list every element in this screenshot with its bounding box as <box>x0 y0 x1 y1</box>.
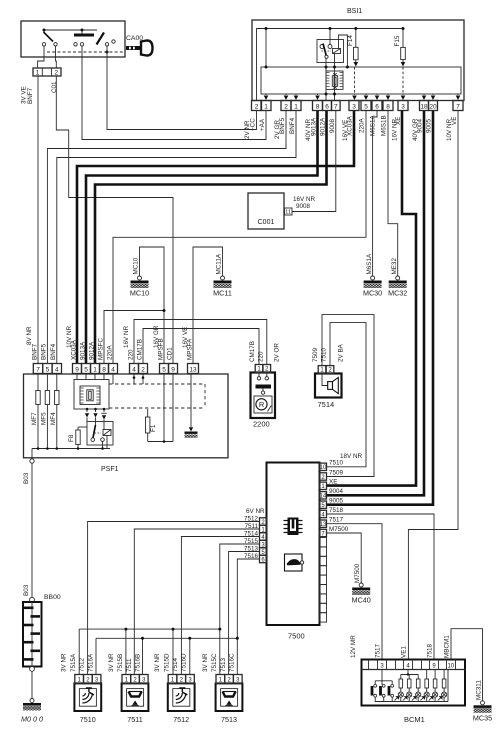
svg-text:3V NR: 3V NR <box>202 653 209 672</box>
svg-text:9008: 9008 <box>329 118 336 133</box>
svg-text:9012A: 9012A <box>89 341 96 360</box>
svg-text:10: 10 <box>320 465 327 471</box>
svg-text:2V OR: 2V OR <box>274 343 281 362</box>
svg-text:M0 0 0: M0 0 0 <box>21 715 43 724</box>
svg-text:4: 4 <box>55 366 59 373</box>
relay switched output to pin 6 <box>325 58 327 100</box>
svg-text:MF7: MF7 <box>31 412 38 425</box>
wire 7516 bus <box>237 559 259 675</box>
svg-text:R: R <box>259 400 264 409</box>
svg-text:7515C: 7515C <box>211 653 218 672</box>
parking sensor 7512 <box>168 683 195 711</box>
svg-text:7516D: 7516D <box>181 653 188 672</box>
svg-text:2: 2 <box>54 70 58 77</box>
PSF1 pin row group 8V NR <box>33 364 42 374</box>
svg-text:7517: 7517 <box>329 517 344 524</box>
svg-text:5: 5 <box>162 366 166 373</box>
svg-text:220A: 220A <box>107 344 114 360</box>
svg-text:MC30: MC30 <box>363 289 382 298</box>
parking sensor 7511 <box>122 683 149 711</box>
svg-text:7513: 7513 <box>220 657 227 672</box>
svg-text:ME32: ME32 <box>391 258 398 275</box>
svg-text:7518: 7518 <box>427 643 434 658</box>
BSI1 pin row <box>252 101 262 111</box>
parking sensor 7513 <box>216 683 243 711</box>
svg-text:MBCM1: MBCM1 <box>443 635 450 658</box>
wire 7515 bus <box>220 544 260 675</box>
wire 7509 from 7500 to 7514 <box>322 315 374 477</box>
wire B03 from PSF1 <box>30 459 34 463</box>
fuses in BCM1 <box>401 674 418 676</box>
svg-text:BNF5: BNF5 <box>279 117 286 134</box>
svg-text:14: 14 <box>320 494 327 500</box>
wire 7518 to BCM1 <box>327 514 435 660</box>
svg-text:VE1: VE1 <box>401 646 408 658</box>
wire +AA <box>82 46 266 140</box>
svg-text:8: 8 <box>316 103 320 110</box>
svg-text:12V MR: 12V MR <box>350 635 357 658</box>
svg-text:4: 4 <box>132 366 136 373</box>
internal band in BSI1 <box>261 67 461 94</box>
svg-text:7515A: 7515A <box>70 653 77 672</box>
BCM1 bottom bus <box>375 701 448 703</box>
svg-text:F8: F8 <box>68 434 75 442</box>
svg-text:9004: 9004 <box>417 118 424 133</box>
svg-text:9013A: 9013A <box>80 341 87 360</box>
internal module rect in PSF1 <box>74 380 109 410</box>
svg-text:MC11: MC11 <box>213 289 232 298</box>
svg-text:11: 11 <box>285 210 291 216</box>
svg-text:7510: 7510 <box>329 460 344 467</box>
svg-text:1: 1 <box>264 103 268 110</box>
svg-text:6V NR: 6V NR <box>246 508 265 515</box>
wire 7513 <box>229 552 260 675</box>
svg-text:BNF4: BNF4 <box>289 117 296 134</box>
internal rail in CA00 <box>44 29 97 31</box>
wire M6S1B / ME32 to ground MC32 <box>388 111 398 276</box>
svg-text:2: 2 <box>141 366 145 373</box>
svg-text:MF4: MF4 <box>50 412 57 425</box>
svg-text:8: 8 <box>386 103 390 110</box>
PSF1 pin row group 10V NR <box>73 364 82 374</box>
svg-text:9004: 9004 <box>329 488 344 495</box>
svg-text:XC03A: XC03A <box>347 115 354 136</box>
IC symbol in 7500 <box>284 520 288 522</box>
svg-text:MC10: MC10 <box>130 289 149 298</box>
svg-text:7509: 7509 <box>329 469 344 476</box>
fuse MF7 <box>37 374 39 449</box>
battery interconnects <box>375 680 392 682</box>
svg-text:M7500: M7500 <box>329 526 349 533</box>
svg-text:13: 13 <box>320 522 327 528</box>
svg-text:7512: 7512 <box>79 657 86 672</box>
svg-text:VE: VE <box>451 117 458 125</box>
svg-text:220A: 220A <box>359 117 366 133</box>
svg-text:+CC: +CC <box>250 118 257 131</box>
relay feed from rail <box>329 29 331 45</box>
BSI1 pin arrows from band <box>265 94 267 95</box>
wire 220 PSF1 to 2200 <box>134 320 267 365</box>
svg-text:7515D: 7515D <box>163 653 170 672</box>
svg-text:B03: B03 <box>23 472 30 484</box>
connector C01 <box>33 68 61 76</box>
connector symbol in PSF1 <box>80 386 100 405</box>
svg-text:F1: F1 <box>150 424 157 432</box>
svg-text:7514: 7514 <box>318 400 335 409</box>
internal supply rail in PSF1 <box>32 448 110 450</box>
svg-text:7511: 7511 <box>127 715 142 724</box>
ground MC35 <box>481 701 485 705</box>
switch contact S1 in CA00 <box>43 30 45 33</box>
svg-text:13: 13 <box>189 366 197 373</box>
svg-text:PSF1: PSF1 <box>101 466 119 473</box>
2200 internals <box>257 377 260 380</box>
wire 9013A thick <box>86 111 318 364</box>
wire 7510 from 7500 to 7514 <box>327 323 367 467</box>
svg-text:5: 5 <box>364 103 368 110</box>
ground MC10 <box>104 311 164 364</box>
svg-text:2: 2 <box>255 103 259 110</box>
batteries in BCM1 <box>371 686 374 696</box>
switch contact S3 in CA00 <box>97 33 105 45</box>
svg-text:BNF7: BNF7 <box>32 343 39 360</box>
2200 pins <box>255 365 263 373</box>
pin 11 of C001 <box>285 208 293 215</box>
wire XC03A thick <box>77 111 354 364</box>
svg-text:5: 5 <box>46 366 50 373</box>
7500 right pins <box>320 463 327 470</box>
svg-text:CM17B: CM17B <box>137 339 144 360</box>
svg-text:BCM1: BCM1 <box>404 715 425 724</box>
svg-text:MF5: MF5 <box>41 412 48 425</box>
fuse MF5 <box>46 374 48 449</box>
svg-text:MC40: MC40 <box>352 596 371 605</box>
svg-text:+AA: +AA <box>259 118 266 131</box>
svg-text:M6S1B: M6S1B <box>381 115 388 136</box>
wire 9008 BSI1 to C001 <box>292 111 336 212</box>
control unit 7500 <box>267 463 320 626</box>
PSF1 pin row group 16V VE <box>188 364 199 374</box>
svg-text:CM17B: CM17B <box>249 341 256 362</box>
svg-text:BNF4: BNF4 <box>50 343 57 360</box>
svg-text:9008: 9008 <box>296 203 311 210</box>
wire SW1b to C01 pin2 <box>55 46 58 68</box>
pin stubs into module <box>76 374 78 380</box>
svg-text:18V NR: 18V NR <box>340 453 363 460</box>
svg-text:7518: 7518 <box>329 507 344 514</box>
key symbol <box>126 46 141 50</box>
svg-text:XE: XE <box>329 479 337 486</box>
battery control module BCM1 <box>362 660 466 706</box>
wire +CC internal riser <box>257 29 404 102</box>
ground M000 <box>31 671 33 698</box>
wire 7517 to BCM1 <box>327 524 383 660</box>
cigar lighter 2200 <box>251 373 276 419</box>
car symbol in 7500 <box>285 554 303 571</box>
junction box C001 <box>248 193 284 229</box>
svg-text:7: 7 <box>456 103 460 110</box>
svg-text:8V NR: 8V NR <box>26 326 33 345</box>
svg-text:1: 1 <box>294 103 298 110</box>
speaker symbol in 7514 <box>322 374 328 386</box>
module outputs with arrows <box>86 409 88 412</box>
svg-text:BSI1: BSI1 <box>347 8 362 15</box>
svg-text:8: 8 <box>102 366 106 373</box>
svg-text:MC10: MC10 <box>133 257 140 274</box>
7514 pins <box>318 366 326 374</box>
svg-text:F15: F15 <box>394 35 401 46</box>
svg-text:9005: 9005 <box>329 498 344 505</box>
svg-text:XC03A: XC03A <box>71 339 78 360</box>
svg-text:MC311: MC311 <box>476 680 483 700</box>
svg-text:16V NR: 16V NR <box>123 325 130 348</box>
svg-text:6: 6 <box>325 103 329 110</box>
dashed feed F15 to pin 3 XE <box>402 67 404 95</box>
svg-text:M7500: M7500 <box>354 563 361 583</box>
svg-text:MC35: MC35 <box>473 713 492 722</box>
svg-text:9: 9 <box>75 366 79 373</box>
7500 left pins <box>260 518 267 525</box>
svg-text:2V BA: 2V BA <box>338 343 345 362</box>
svg-text:7510: 7510 <box>80 715 96 724</box>
wire 220A <box>113 111 366 364</box>
svg-text:3: 3 <box>352 103 356 110</box>
svg-text:9: 9 <box>171 366 175 373</box>
wire M7500 to ground MC40 <box>327 533 362 583</box>
svg-text:C01: C01 <box>51 81 58 93</box>
connector symbol inside band <box>326 71 343 89</box>
wire VE down to BCM1 VE1 <box>408 111 458 660</box>
svg-text:BB00: BB00 <box>44 594 61 601</box>
svg-text:20: 20 <box>429 103 437 110</box>
wire 9005 thick <box>327 111 434 505</box>
svg-text:7513: 7513 <box>221 715 237 724</box>
wire MPSFB riser to MC10 <box>140 247 165 364</box>
svg-text:5: 5 <box>84 366 88 373</box>
svg-text:7512: 7512 <box>173 715 189 724</box>
internal wires to F1 <box>148 441 173 443</box>
svg-text:CD1: CD1 <box>167 347 174 360</box>
svg-text:F14: F14 <box>347 35 354 46</box>
relay in BSI1 <box>317 40 344 63</box>
wire MBCM1 to ground MC35 <box>451 629 483 701</box>
wire XE thick down right side <box>327 111 417 486</box>
relay output wires in PSF1 <box>31 449 33 459</box>
dashed feed F14 to pin 3 XC03A <box>354 67 356 95</box>
svg-text:3V NR: 3V NR <box>108 653 115 672</box>
wire CM17B PSF1 to 2200 <box>143 329 259 365</box>
svg-text:7514: 7514 <box>172 657 179 672</box>
svg-text:2200: 2200 <box>253 420 270 429</box>
svg-text:MC11A: MC11A <box>216 253 223 274</box>
7500 spare pin boxes <box>320 538 327 547</box>
relay coil lower wire to pin 7 <box>334 54 336 101</box>
svg-text:18: 18 <box>420 103 428 110</box>
relay coil upper wire loop to band <box>339 35 348 67</box>
svg-text:BNF7: BNF7 <box>27 87 34 104</box>
fuse MF4 <box>56 374 58 449</box>
wire 7512 <box>88 522 260 675</box>
svg-text:9005: 9005 <box>426 118 433 133</box>
svg-text:7516B: 7516B <box>135 654 142 672</box>
svg-text:M6S1A: M6S1A <box>366 253 373 274</box>
dashed option rect in PSF1 <box>109 383 205 385</box>
svg-text:220: 220 <box>128 349 135 360</box>
svg-text:2: 2 <box>284 103 288 110</box>
svg-text:7511: 7511 <box>126 658 133 672</box>
buzzer 7514 <box>315 374 342 398</box>
svg-text:3: 3 <box>401 103 405 110</box>
internal ground of PSF1 <box>190 374 192 427</box>
svg-text:10: 10 <box>447 663 454 669</box>
svg-text:7: 7 <box>36 366 40 373</box>
ground MC30 <box>371 276 375 280</box>
wire 9004 thick <box>327 111 425 495</box>
ground MC40 <box>359 583 363 587</box>
PSF1 pin row group 16V NR <box>130 364 139 374</box>
switch contact S2 in CA00 <box>74 34 94 37</box>
svg-text:MPSFA: MPSFA <box>187 338 194 360</box>
parking sensor 7510 <box>74 683 101 711</box>
wire M6S1A to ground MC30 <box>373 111 377 276</box>
wire CD1 from C01 pin2 to PSF1 <box>56 76 173 364</box>
wire BNF5 <box>47 111 286 364</box>
svg-text:7516A: 7516A <box>87 653 94 672</box>
svg-text:3V NR: 3V NR <box>154 653 161 672</box>
relay in PSF1 <box>87 422 113 446</box>
svg-text:B03: B03 <box>23 584 30 596</box>
ground MC11 <box>193 247 223 364</box>
mechanical link dashed to key <box>47 51 125 53</box>
wire +AA internal riser <box>265 29 267 68</box>
svg-text:1: 1 <box>93 366 97 373</box>
svg-text:MPSFC: MPSFC <box>98 338 105 360</box>
wire 7514 <box>181 537 259 675</box>
wire +CC <box>107 46 257 130</box>
wire BNF7 <box>37 76 39 364</box>
svg-text:7509: 7509 <box>312 347 319 362</box>
svg-text:6: 6 <box>375 103 379 110</box>
wire 7511 <box>134 529 259 675</box>
svg-text:7: 7 <box>334 103 338 110</box>
PSF1 pin row group 16V GR <box>160 364 169 374</box>
svg-text:3V NR: 3V NR <box>61 653 68 672</box>
svg-text:7500: 7500 <box>288 632 305 641</box>
svg-text:4: 4 <box>111 366 115 373</box>
svg-text:C001: C001 <box>258 219 275 226</box>
svg-text:MC32: MC32 <box>388 289 407 298</box>
svg-text:1: 1 <box>36 70 40 77</box>
wire 9012A thick <box>95 111 327 364</box>
svg-text:7515B: 7515B <box>117 654 124 672</box>
svg-text:7516C: 7516C <box>229 653 236 672</box>
wire SW1 to C01 pin1 <box>38 46 44 68</box>
ground MC32 <box>396 276 400 280</box>
fuse F1 <box>147 409 149 417</box>
svg-text:MPSFB: MPSFB <box>158 338 165 360</box>
PSF1 box <box>24 374 229 458</box>
BCM1 pin cells <box>368 660 370 670</box>
ignition switch CA00 <box>21 21 125 57</box>
svg-text:7517: 7517 <box>375 643 382 658</box>
wire BNF4 <box>57 111 296 364</box>
svg-text:BNF5: BNF5 <box>41 343 48 360</box>
